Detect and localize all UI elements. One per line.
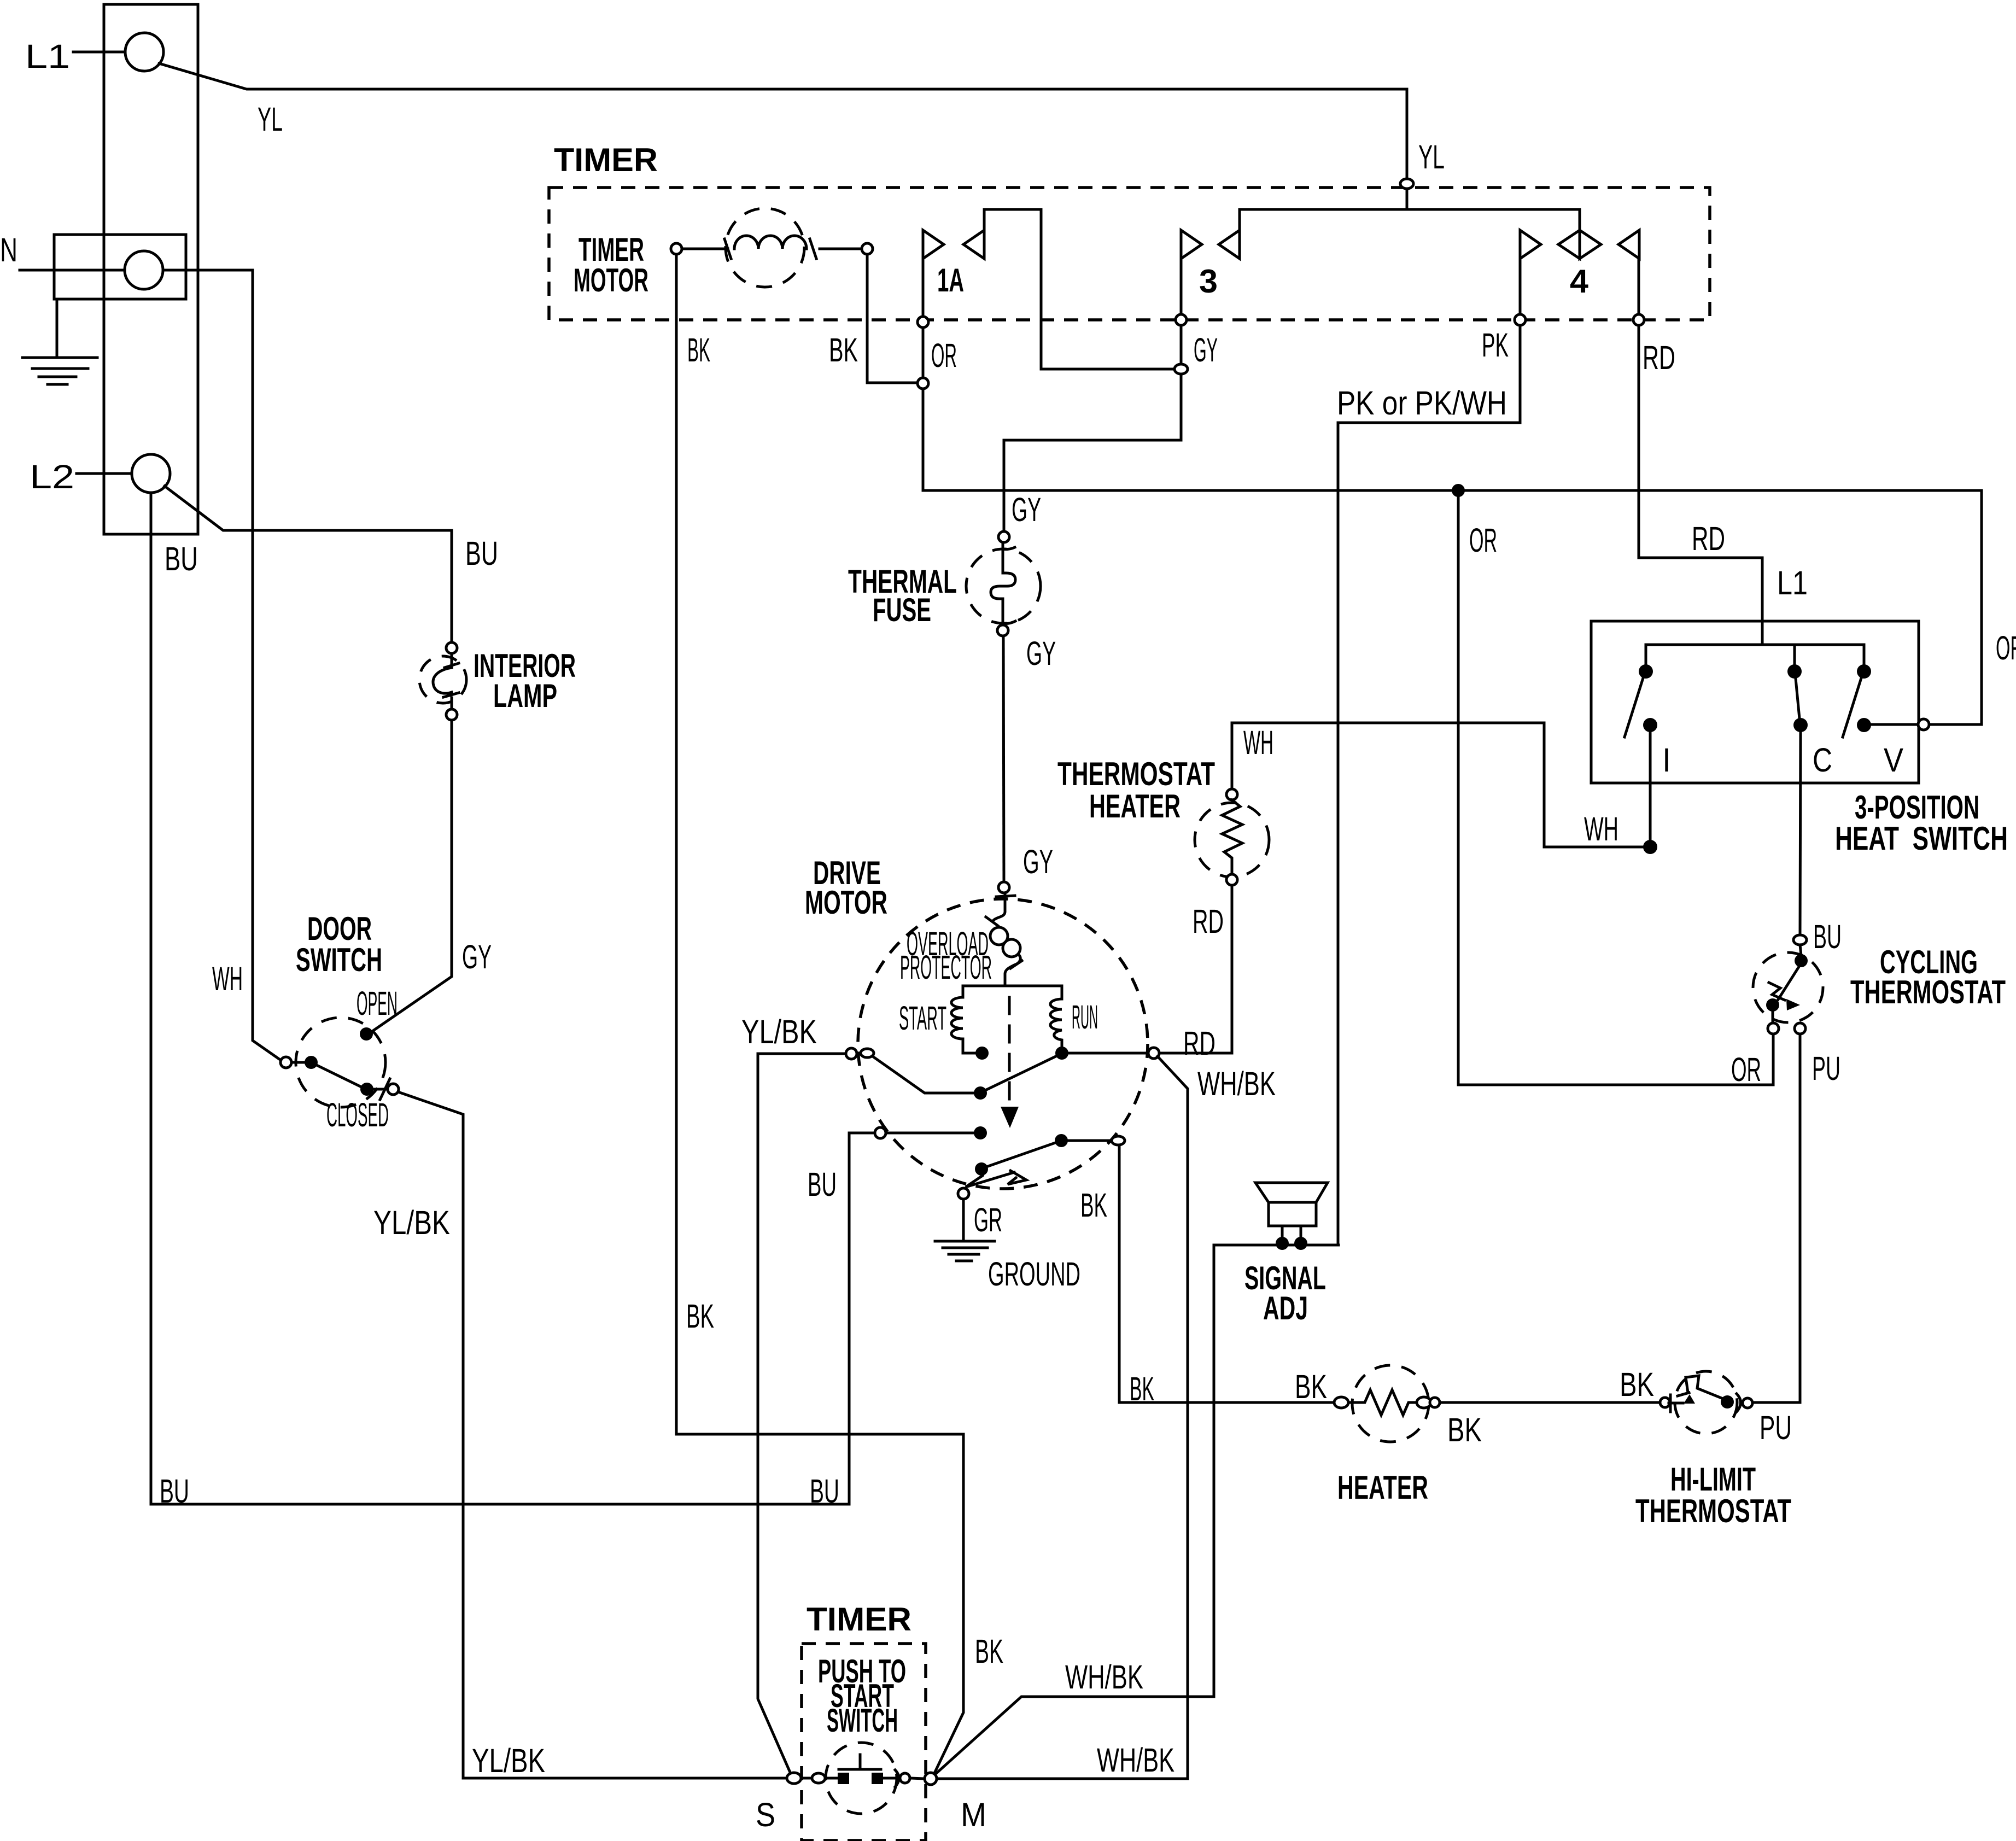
svg-text:PK: PK: [1482, 326, 1509, 364]
contact 4 flags: [1520, 230, 1541, 259]
wire N lead: [20, 269, 125, 272]
svg-text:BU: BU: [1813, 918, 1842, 955]
svg-text:RD: RD: [1183, 1025, 1216, 1062]
terminal 1A: [918, 317, 928, 328]
interior lamp: [419, 656, 466, 703]
wire L1 to YL: [159, 63, 1407, 178]
svg-text:WH: WH: [1243, 724, 1273, 761]
svg-text:HI-LIMIT: HI-LIMIT: [1670, 1461, 1756, 1498]
terminal 3: [1176, 314, 1187, 325]
wire 1A to OR junction: [922, 328, 925, 378]
svg-text:GY: GY: [1012, 491, 1041, 528]
thermal fuse: [966, 549, 1041, 623]
ground (supply): [22, 299, 97, 384]
heater terminal left: [1334, 1397, 1348, 1408]
terminal GY junction: [1174, 364, 1188, 374]
wire contact 3 lower: [1180, 259, 1183, 314]
svg-text:L2: L2: [30, 458, 74, 495]
timer motor coil: [726, 208, 804, 287]
signal horn: [1255, 1183, 1328, 1202]
wire signal: [1214, 1244, 1339, 1247]
wire C contact down BU: [1800, 732, 1801, 934]
thermal fuse terminal bottom: [997, 625, 1008, 636]
motor switch blade 1: [873, 1056, 974, 1093]
wire YL split right: [1407, 209, 1580, 230]
svg-text:PU: PU: [1760, 1409, 1792, 1446]
svg-text:START: START: [899, 1000, 946, 1037]
push to start switch circle: [826, 1743, 897, 1814]
wire 1A upper jog: [984, 209, 1174, 369]
svg-text:L1: L1: [1777, 564, 1808, 601]
wire WH/BK diagonal: [1158, 1056, 1188, 1779]
svg-text:TIMER: TIMER: [807, 1601, 911, 1638]
svg-text:WH: WH: [212, 960, 243, 997]
svg-text:RD: RD: [1692, 520, 1725, 557]
door switch CLOSED contact: [360, 1083, 373, 1096]
wire L2 down BU: [150, 493, 153, 1504]
svg-text:3: 3: [1199, 263, 1218, 300]
wire timer motor BK right jog: [867, 254, 917, 383]
signal terminal dots: [1276, 1237, 1289, 1250]
drive motor circle: [858, 899, 1148, 1189]
thermal fuse terminal top: [998, 531, 1009, 542]
svg-text:RD: RD: [1643, 339, 1675, 376]
wire L2 to lamp (BU): [165, 486, 452, 642]
timer motor terminal left: [671, 243, 682, 254]
svg-text:SWITCH: SWITCH: [827, 1702, 898, 1739]
svg-text:WH/BK: WH/BK: [1065, 1658, 1143, 1696]
wire PU down: [1753, 1034, 1800, 1402]
heat switch contact C: [1793, 718, 1808, 732]
svg-text:RD: RD: [1193, 903, 1224, 940]
wire L1 lead: [73, 51, 125, 54]
svg-text:PU: PU: [1812, 1050, 1840, 1087]
heat switch bus: [1646, 645, 1864, 666]
hi-limit thermostat: [1675, 1371, 1737, 1434]
wire N to WH: [163, 270, 282, 1061]
wire L2 lead: [77, 472, 132, 475]
svg-text:GROUND: GROUND: [988, 1255, 1080, 1293]
wire V to box edge: [1871, 723, 1918, 726]
svg-text:LAMP: LAMP: [493, 677, 557, 714]
motor winding block: [963, 986, 1062, 999]
run winding: [1050, 999, 1062, 1047]
svg-text:GY: GY: [1194, 331, 1218, 369]
svg-text:BK: BK: [1620, 1366, 1654, 1403]
svg-text:BU: BU: [808, 1166, 837, 1203]
terminal block: [104, 4, 198, 534]
terminal M: [925, 1773, 937, 1785]
hi-limit terminal right: [1737, 1394, 1741, 1412]
signal leads: [1281, 1226, 1284, 1237]
svg-text:N: N: [0, 231, 17, 268]
svg-text:GY: GY: [462, 938, 492, 975]
hi-limit contact dot: [1721, 1395, 1734, 1408]
svg-text:BK: BK: [1080, 1187, 1107, 1224]
cycling thermostat terminal PU: [1795, 1023, 1805, 1034]
motor terminal RD: [1148, 1048, 1159, 1059]
svg-text:OR: OR: [931, 337, 957, 374]
thermostat heater terminal top: [1226, 789, 1237, 800]
wire contact 3 stub: [1180, 325, 1183, 363]
svg-text:HEATER: HEATER: [1089, 788, 1181, 825]
heat switch box: [1591, 621, 1919, 783]
terminal V OR: [1918, 719, 1929, 730]
svg-text:GY: GY: [1023, 843, 1053, 880]
heat switch contact V: [1857, 718, 1871, 732]
thermostat heater resistor: [1195, 803, 1269, 877]
wire RUN to RD: [1068, 1052, 1148, 1055]
heat switch blade I: [1625, 678, 1643, 737]
terminal WH dot: [1643, 840, 1657, 854]
wire overload to block: [1004, 979, 1007, 986]
svg-text:MOTOR: MOTOR: [574, 262, 648, 299]
timer motor terminal right: [862, 243, 873, 254]
terminal PK: [1515, 314, 1526, 325]
wire OR main: [923, 389, 1982, 724]
cycling thermostat terminal OR: [1768, 1023, 1779, 1034]
terminal L1: [125, 33, 163, 71]
door switch circle: [296, 1018, 385, 1107]
svg-text:YL: YL: [1418, 138, 1445, 176]
svg-text:HEATER: HEATER: [1337, 1469, 1428, 1506]
svg-text:OR: OR: [1469, 522, 1497, 559]
svg-text:BU: BU: [810, 1472, 839, 1510]
svg-text:GR: GR: [974, 1201, 1002, 1238]
terminal S: [787, 1773, 801, 1784]
svg-text:4: 4: [1570, 263, 1589, 300]
wire BU horizontal: [151, 1503, 849, 1506]
heater: [1352, 1365, 1429, 1442]
wire RD to heat switch: [1639, 325, 1762, 643]
hi-limit terminal left: [1660, 1398, 1670, 1407]
svg-text:MOTOR: MOTOR: [805, 884, 887, 921]
svg-text:OR: OR: [1996, 629, 2016, 667]
contact 3 flags: [1181, 230, 1202, 259]
wire GY to thermal fuse: [1004, 374, 1181, 531]
start winding dot: [975, 1047, 989, 1060]
signal body: [1269, 1202, 1316, 1226]
wire 1A lower: [922, 259, 925, 317]
motor terminal GY: [998, 882, 1009, 893]
svg-text:THERMOSTAT: THERMOSTAT: [1850, 974, 2006, 1010]
svg-text:GY: GY: [1026, 635, 1056, 672]
wire BK motor down: [1119, 1145, 1336, 1402]
push switch contacts: [802, 1777, 812, 1780]
svg-text:BK: BK: [1447, 1411, 1482, 1448]
door switch WH terminal: [281, 1057, 291, 1068]
svg-text:ADJ: ADJ: [1263, 1290, 1308, 1326]
cycling thermostat terminal top: [1793, 935, 1807, 945]
wire BK timer to M: [676, 1434, 963, 1775]
wire contact 4 PK: [1519, 259, 1522, 314]
svg-text:V: V: [1884, 741, 1903, 779]
overload protector: [986, 893, 1022, 980]
svg-text:BU: BU: [465, 535, 498, 572]
wire BU motor down: [848, 1133, 851, 1504]
svg-text:FUSE: FUSE: [873, 592, 931, 628]
push button: [839, 1768, 881, 1771]
terminal N: [125, 251, 163, 289]
timer dashed box: [549, 188, 1710, 320]
wire timer motor BK left: [675, 254, 678, 1434]
cycling thermostat: [1753, 952, 1823, 1022]
heat switch blade V: [1843, 678, 1861, 737]
svg-text:BK: BK: [975, 1633, 1003, 1670]
svg-text:CLOSED: CLOSED: [326, 1096, 389, 1133]
svg-text:WH/BK: WH/BK: [1097, 1741, 1174, 1779]
wire lamp to door switch GY: [371, 720, 452, 1032]
wire PK to PK/WH: [1338, 325, 1520, 1245]
svg-text:SWITCH: SWITCH: [296, 942, 382, 978]
svg-text:BK: BK: [687, 331, 710, 369]
contact 1A flags: [923, 230, 944, 259]
svg-text:BK: BK: [686, 1298, 714, 1335]
terminal YL: [1400, 179, 1413, 189]
svg-text:BK: BK: [1130, 1370, 1154, 1407]
wire M to WH/BK: [937, 1778, 1188, 1780]
svg-text:OPEN: OPEN: [357, 985, 398, 1022]
ground (motor): [935, 1199, 995, 1261]
terminal L2: [132, 454, 170, 493]
svg-text:YL/BK: YL/BK: [373, 1204, 450, 1241]
heat switch blade C: [1796, 679, 1799, 718]
svg-text:THERMOSTAT: THERMOSTAT: [1635, 1493, 1791, 1529]
push to start dashed box: [802, 1644, 926, 1840]
motor terminal YL/BK: [846, 1048, 857, 1059]
start winding: [951, 997, 976, 1053]
wire YL split: [1240, 189, 1407, 230]
svg-text:THERMOSTAT: THERMOSTAT: [1057, 756, 1215, 792]
svg-text:PK or PK/WH: PK or PK/WH: [1337, 384, 1507, 422]
heat switch contact I: [1643, 718, 1657, 732]
svg-text:BK: BK: [829, 331, 858, 369]
wire WH corner down: [1232, 723, 1238, 789]
neutral terminal box: [54, 235, 186, 299]
svg-text:WH: WH: [1584, 810, 1618, 848]
wire WH/BK signal down: [933, 1245, 1214, 1776]
heat switch pole V top: [1857, 664, 1871, 679]
svg-text:1A: 1A: [937, 262, 964, 299]
svg-text:YL/BK: YL/BK: [472, 1742, 545, 1779]
door switch slash: [380, 1079, 390, 1100]
motor ground terminal: [958, 1188, 969, 1199]
svg-text:RUN: RUN: [1072, 998, 1098, 1036]
svg-text:S: S: [756, 1796, 775, 1833]
svg-text:I: I: [1662, 741, 1671, 779]
motor actuator: [966, 1171, 1026, 1187]
svg-text:C: C: [1813, 741, 1832, 779]
svg-text:M: M: [961, 1796, 986, 1833]
motor dashed arrow: [1008, 997, 1011, 1104]
terminal OR: [918, 378, 928, 389]
door switch YL/BK terminal: [388, 1084, 399, 1095]
motor switch row3: [975, 1162, 988, 1176]
door switch blade: [317, 1065, 361, 1087]
door switch common contact: [291, 1061, 305, 1064]
thermostat heater terminal bottom: [1226, 874, 1237, 885]
wire RD thermostat heater down: [1231, 885, 1234, 1053]
wire GY fuse to motor: [1003, 636, 1004, 882]
wire RD to thermostat heater: [1159, 1052, 1232, 1055]
door switch OPEN contact: [360, 1027, 373, 1041]
svg-text:L1: L1: [25, 38, 70, 75]
svg-text:WH/BK: WH/BK: [1197, 1065, 1276, 1102]
motor switch row2: [849, 1132, 875, 1135]
svg-text:PROTECTOR: PROTECTOR: [900, 949, 992, 986]
svg-text:YL/BK: YL/BK: [741, 1013, 817, 1050]
svg-text:BK: BK: [1295, 1368, 1327, 1405]
svg-text:HEAT SWITCH: HEAT SWITCH: [1835, 820, 2008, 857]
wire OR down to cycling: [1458, 497, 1773, 1085]
wire I contact down: [1649, 732, 1652, 840]
heat switch pole C top: [1787, 664, 1802, 679]
svg-text:TIMER: TIMER: [554, 142, 658, 178]
wire YL/BK motor: [758, 1054, 846, 1775]
heater terminal right: [1417, 1397, 1431, 1408]
wire door switch to S (YL/BK): [398, 1092, 787, 1778]
terminal RD: [1633, 314, 1644, 325]
wire WH to thermostat heater: [1238, 723, 1643, 847]
heat switch pole I top: [1639, 664, 1653, 679]
interior lamp terminal top: [446, 642, 457, 653]
svg-text:YL: YL: [258, 101, 283, 138]
interior lamp terminal bottom: [446, 709, 457, 720]
junction OR: [1452, 484, 1465, 497]
run winding dot: [1055, 1047, 1068, 1060]
svg-text:BU: BU: [165, 540, 198, 577]
wire heater to hi-limit: [1440, 1401, 1659, 1404]
wire contact 4 RD: [1638, 259, 1640, 314]
svg-text:OR: OR: [1731, 1051, 1761, 1088]
